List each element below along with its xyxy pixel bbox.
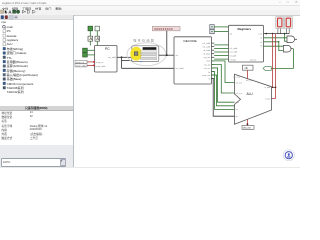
staircase wire alu bus 3 [212, 68, 235, 102]
wire rom lower input [122, 60, 132, 62]
svg-text:rd_data: rd_data [203, 53, 211, 56]
clock pin registers [210, 25, 214, 29]
circuit canvas [0, 0, 300, 168]
svg-text:ins: ins [176, 55, 179, 57]
svg-text:alu_op1: alu_op1 [233, 77, 241, 79]
tunnel jump_addr [75, 64, 87, 68]
toolbar output pin icon [16, 10, 19, 13]
wire display feed [278, 29, 289, 34]
svg-text:mem_we: mem_we [202, 75, 211, 77]
svg-text:PC: PC [105, 47, 110, 51]
svg-text:000000000: 000000000 [154, 27, 173, 31]
seven segment display 1 [276, 17, 284, 29]
input pin CLK [88, 26, 93, 31]
svg-text:reg_we: reg_we [204, 57, 211, 59]
wire we [214, 31, 228, 33]
panel/canvas divider [73, 15, 74, 168]
svg-text:alu_out: alu_out [243, 127, 251, 130]
toolbar NOT gate icon [22, 10, 26, 13]
svg-text:Registers: Registers [238, 27, 252, 31]
wire clk [214, 26, 228, 28]
svg-text:ins_addr: ins_addr [176, 67, 184, 70]
svg-text:alu_op2: alu_op2 [246, 80, 254, 82]
svg-text:rd_data: rd_data [230, 58, 237, 61]
wire [87, 54, 94, 56]
svg-text:reg_we: reg_we [250, 58, 256, 61]
wire rd_addr [214, 51, 228, 53]
svg-text:clk: clk [230, 34, 232, 36]
wire [87, 61, 95, 63]
svg-text:rs1_addr: rs1_addr [230, 47, 238, 50]
wire alu out [247, 120, 249, 126]
svg-text:ALU: ALU [247, 92, 254, 96]
title bar [0, 0, 300, 6]
label alu_op2 [246, 80, 254, 82]
zoom button overlay [283, 150, 294, 161]
toolbar text tool icon [8, 9, 12, 14]
input pin we [210, 29, 214, 33]
attribute table [0, 106, 73, 112]
pin stubs DECODE right [212, 43, 215, 79]
svg-text:cur_addr: cur_addr [108, 56, 117, 59]
svg-text:rs2_out: rs2_out [236, 92, 243, 95]
wire red a [272, 34, 274, 88]
wire [166, 31, 168, 55]
svg-text:imm: imm [236, 102, 240, 104]
tunnel alu_out [242, 126, 254, 130]
input pin b [83, 53, 88, 57]
subcircuit PC [95, 46, 118, 73]
wire [89, 41, 91, 45]
svg-text:is_out: is_out [265, 97, 271, 100]
clock component [88, 36, 93, 41]
toolbar [0, 10, 300, 16]
wire gate2 input [264, 45, 284, 47]
zoom combo [1, 158, 66, 167]
svg-text:jump_en: jump_en [95, 62, 105, 64]
wire rs2_addr [214, 47, 228, 49]
tunnel jump_en [75, 60, 87, 64]
svg-text:rd_addr: rd_addr [230, 55, 237, 58]
svg-text:DECODE: DECODE [184, 39, 197, 43]
left tree [1, 20, 6, 24]
svg-text:alu_op: alu_op [204, 64, 211, 66]
label alu_op1 [233, 77, 241, 79]
svg-text:rs2_addr: rs2_addr [230, 51, 238, 54]
left panel lower gray area [0, 145, 73, 168]
selection halo [127, 43, 166, 66]
AND gate 2 [283, 45, 293, 52]
staircase wire alu bus 4 [212, 72, 235, 110]
wire gate2 input b [264, 41, 284, 51]
wire [89, 31, 91, 36]
wire gate2 output [271, 49, 293, 69]
svg-text:rs1_out: rs1_out [236, 81, 243, 84]
label program memory [133, 37, 155, 42]
seven segment display 2 [284, 17, 292, 29]
wire [87, 65, 95, 67]
svg-text:u3: u3 [260, 46, 262, 48]
staircase wire alu bus 1 [212, 61, 235, 83]
wire bus displays [264, 33, 290, 35]
wire red b [272, 34, 276, 99]
wire [122, 67, 175, 69]
wire [87, 49, 94, 51]
toolbar AND gate icon [27, 10, 30, 13]
toolbar input pin icon [13, 10, 16, 13]
wire gate1 input b [285, 34, 288, 42]
wire [96, 41, 98, 45]
svg-text:jump_addr: jump_addr [75, 64, 86, 67]
wire gate1 input [264, 37, 288, 39]
toolbar hand tool icon [1, 10, 4, 13]
wire rs1_addr [214, 44, 228, 46]
node alu flag [272, 87, 277, 89]
node pc_out [117, 56, 132, 58]
staircase wire alu bus 5 [212, 75, 235, 106]
left explorer toolbar [0, 15, 73, 21]
svg-text:u2: u2 [260, 42, 262, 44]
toolbar OR gate icon [32, 10, 35, 13]
toolbar select arrow icon [5, 10, 8, 14]
svg-text:rs2_addr: rs2_addr [202, 47, 210, 49]
svg-text:imm: imm [206, 61, 210, 63]
svg-text:jump_addr: jump_addr [95, 65, 106, 68]
svg-text:rs1_addr: rs1_addr [202, 43, 210, 45]
svg-text:rd: rd [208, 79, 210, 81]
input pin a [83, 48, 88, 52]
input pin RST [95, 26, 100, 31]
subcircuit Registers [229, 25, 264, 62]
svg-text:u1: u1 [260, 38, 262, 40]
probe instruction value [152, 26, 180, 31]
ROM program memory [130, 46, 159, 62]
tunnel br_taken [263, 66, 271, 70]
svg-text:程序存储器: 程序存储器 [133, 37, 155, 42]
wire [121, 57, 123, 68]
ALU [235, 74, 272, 124]
wire [96, 31, 98, 36]
svg-text:op: op [236, 116, 238, 118]
wire reg_we [214, 58, 228, 60]
AND gate 1 [287, 36, 297, 43]
staircase wire black [212, 79, 235, 117]
staircase wire alu bus 2 [212, 64, 235, 93]
svg-text:alu_src: alu_src [204, 68, 210, 70]
svg-text:src: src [236, 108, 239, 111]
node ins [159, 54, 174, 56]
svg-text:t_out: t_out [258, 32, 263, 35]
subcircuit DECODE [174, 37, 212, 84]
wire rd_data [214, 55, 228, 57]
menu bar [0, 6, 300, 10]
wire clk alu [247, 70, 249, 79]
svg-text:is_add: is_add [265, 87, 271, 89]
clock component [95, 36, 100, 41]
svg-text:rd_addr: rd_addr [203, 50, 210, 52]
clock box alu [243, 65, 254, 70]
